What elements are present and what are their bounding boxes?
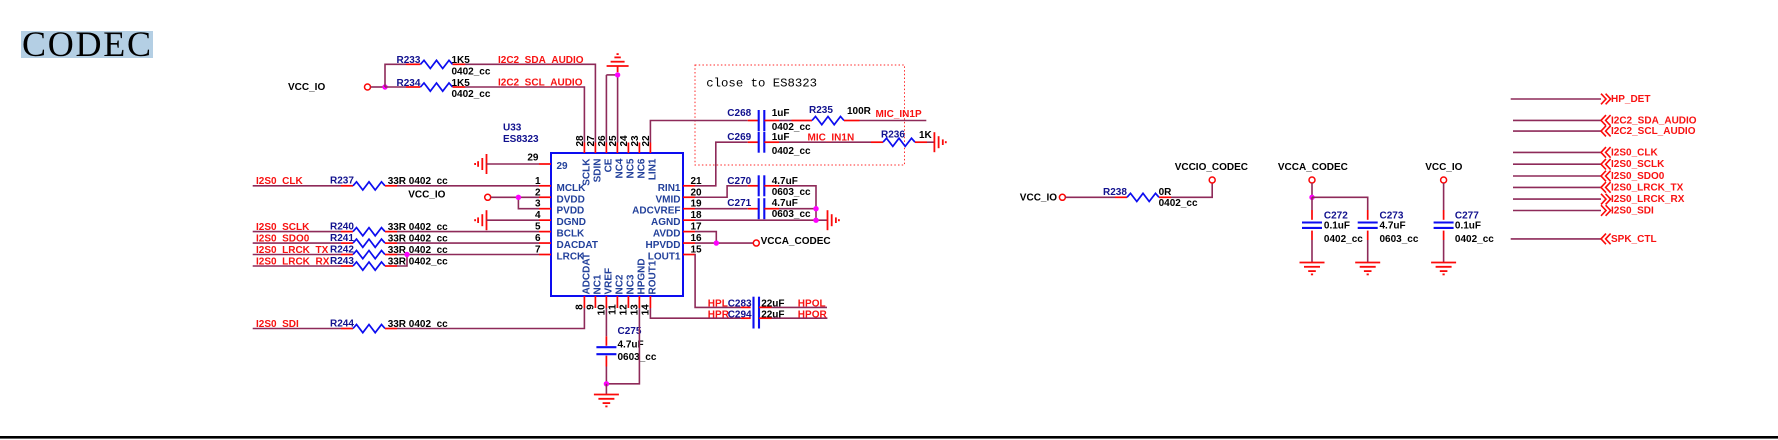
wire VCC_IO to junction xyxy=(371,86,386,88)
svg-text:MIC_IN1P: MIC_IN1P xyxy=(876,109,922,120)
svg-text:ROUT1: ROUT1 xyxy=(647,260,658,294)
svg-text:8: 8 xyxy=(574,304,585,310)
svg-text:NC4: NC4 xyxy=(614,158,625,178)
resistor R238 0R 0402_cc xyxy=(1065,187,1198,209)
net label I2S0_SDO0 xyxy=(253,233,341,244)
svg-text:3: 3 xyxy=(535,199,541,210)
svg-text:0402_cc: 0402_cc xyxy=(452,66,491,77)
svg-text:0402_cc: 0402_cc xyxy=(1455,234,1494,245)
svg-text:24: 24 xyxy=(619,135,630,147)
wire net HPOR xyxy=(759,317,827,319)
svg-text:VCC_IO: VCC_IO xyxy=(288,82,325,93)
pin 19 ADCVREF xyxy=(632,199,702,217)
pin 21 RIN1 xyxy=(658,176,702,194)
svg-text:0402_cc: 0402_cc xyxy=(1159,198,1198,209)
wire pin 14 ROUT1 to HPR row xyxy=(650,308,741,318)
svg-text:I2S0_LRCK_RX: I2S0_LRCK_RX xyxy=(1611,194,1685,205)
wire R237 to pin 1 xyxy=(397,185,539,187)
pin 25 NC4 xyxy=(608,135,626,179)
pin 14 ROUT1 xyxy=(640,260,658,315)
pin 23 NC6 xyxy=(630,135,648,179)
pin 10 VREF xyxy=(596,268,614,316)
capacitor C269 1uF 0402_cc xyxy=(727,132,811,157)
svg-text:I2S0_CLK: I2S0_CLK xyxy=(1611,147,1658,158)
off-page connector I2S0_LRCK_RX xyxy=(1513,194,1685,205)
svg-text:AGND: AGND xyxy=(651,217,680,228)
wire pin 16 HPVDD to VCCA_CODEC xyxy=(695,242,753,244)
off-page connector I2S0_LRCK_TX xyxy=(1513,182,1684,193)
svg-text:1: 1 xyxy=(535,176,541,187)
off-page connector I2C2_SCL_AUDIO xyxy=(1513,126,1696,137)
resistor R243 33R 0402_cc xyxy=(330,256,448,270)
svg-text:close to ES8323: close to ES8323 xyxy=(706,77,817,91)
svg-text:HP_DET: HP_DET xyxy=(1611,94,1650,105)
svg-text:1uF: 1uF xyxy=(772,108,790,119)
pin 6 DACDAT xyxy=(535,233,598,251)
svg-text:I2C2_SCL_AUDIO: I2C2_SCL_AUDIO xyxy=(1611,126,1696,137)
svg-text:NC6: NC6 xyxy=(636,158,647,178)
off-page connector I2S0_SDI xyxy=(1513,205,1654,216)
svg-text:LIN1: LIN1 xyxy=(647,158,658,180)
svg-text:11: 11 xyxy=(607,304,618,315)
svg-text:VCC_IO: VCC_IO xyxy=(408,190,445,201)
ground (C277) xyxy=(1431,263,1456,275)
svg-text:AVDD: AVDD xyxy=(653,229,681,240)
off-page connector SPK_CTL xyxy=(1511,234,1657,245)
svg-text:I2S0_SCLK: I2S0_SCLK xyxy=(1611,159,1665,170)
junction C275/HPGND ground node xyxy=(604,381,609,386)
wire pin 20 VMID up to C270 xyxy=(695,186,748,197)
svg-text:VCCA_CODEC: VCCA_CODEC xyxy=(1278,162,1348,173)
svg-text:0.1uF: 0.1uF xyxy=(1455,221,1481,232)
off-page connector I2S0_SDO0 xyxy=(1513,171,1665,182)
wire pin 13 HPGND down to ground junction xyxy=(606,308,639,384)
ground (pin 29 pad) xyxy=(475,154,486,174)
svg-text:0402_cc: 0402_cc xyxy=(772,146,811,157)
pin 29 stub xyxy=(527,153,568,173)
svg-text:MIC_IN1N: MIC_IN1N xyxy=(808,133,855,144)
pin 28 SCLK xyxy=(575,135,593,186)
title CODEC xyxy=(21,24,153,64)
wire C277 to ground xyxy=(1443,240,1445,263)
svg-text:4.7uF: 4.7uF xyxy=(1380,221,1406,232)
svg-text:0603_cc: 0603_cc xyxy=(772,187,811,198)
pin 1 MCLK xyxy=(535,176,586,194)
svg-text:33R 0402_cc: 33R 0402_cc xyxy=(388,256,448,267)
capacitor C275 4.7uF 0603_cc xyxy=(596,326,656,367)
svg-text:RIN1: RIN1 xyxy=(658,183,681,194)
pin 12 NC3 xyxy=(618,274,636,315)
ground (top, pins 25/26) xyxy=(607,54,629,72)
capacitor C277 0.1uF 0402_cc xyxy=(1434,183,1495,245)
capacitor C273 4.7uF 0603_cc xyxy=(1358,210,1419,245)
node VCC_IO (far right) xyxy=(1425,162,1462,183)
wire pin 15 LOUT1 to HPL row xyxy=(695,255,741,308)
svg-text:2: 2 xyxy=(535,187,541,198)
wire junction up to R233 row xyxy=(385,64,406,87)
svg-text:VREF: VREF xyxy=(603,268,614,295)
pin 3 PVDD xyxy=(535,199,584,217)
resistor R236 1K xyxy=(871,130,933,147)
node VCC_IO (right) xyxy=(1020,193,1066,204)
pin 16 HPVDD xyxy=(645,233,702,251)
capacitor C294 22uF xyxy=(728,310,752,321)
svg-text:4: 4 xyxy=(535,210,541,221)
net label I2S0_SCLK xyxy=(253,222,341,233)
wire C272 to ground xyxy=(1311,240,1313,263)
svg-text:7: 7 xyxy=(535,245,541,256)
junction LRCK_TX/RX xyxy=(404,252,409,257)
svg-text:NC5: NC5 xyxy=(625,158,636,178)
svg-text:6: 6 xyxy=(535,233,541,244)
svg-text:NC3: NC3 xyxy=(625,274,636,294)
svg-text:HPR: HPR xyxy=(708,310,730,321)
svg-text:0402_cc: 0402_cc xyxy=(452,89,491,100)
svg-text:ES8323: ES8323 xyxy=(503,134,539,145)
capacitor C268 1uF 0402_cc xyxy=(727,108,811,133)
wire C268 to R235 xyxy=(779,120,792,122)
resistor R237 33R 0402_cc xyxy=(330,176,448,191)
node VCCA_CODEC (right) xyxy=(1278,162,1348,183)
svg-text:I2C2_SCL_AUDIO: I2C2_SCL_AUDIO xyxy=(498,78,583,89)
node VCCA_CODEC (at chip) xyxy=(753,236,830,247)
svg-text:NC1: NC1 xyxy=(592,274,603,294)
wire pin 10 VREF down to C275 xyxy=(605,308,607,336)
wire net MIC_IN1P xyxy=(860,120,927,122)
wire VCC_IO to pins 2 and 3 xyxy=(491,196,539,198)
svg-text:NC2: NC2 xyxy=(614,274,625,294)
resistor R240 33R 0402_cc xyxy=(330,221,448,236)
svg-text:0603_cc: 0603_cc xyxy=(618,352,657,363)
svg-text:0.1uF: 0.1uF xyxy=(1324,221,1350,232)
svg-text:R236: R236 xyxy=(881,130,905,141)
junction top-ground node xyxy=(615,72,620,77)
resistor R234 1K5 0402_cc xyxy=(397,78,491,100)
wire R243 up to LRCK_TX row xyxy=(397,255,407,267)
resistor R233 1K5 0402_cc xyxy=(397,55,491,77)
off-page connector I2S0_SCLK xyxy=(1513,159,1665,170)
net label I2S0_LRCK_TX xyxy=(253,245,341,256)
wire VCCA_CODEC down to junction xyxy=(1311,183,1313,197)
svg-text:HPL: HPL xyxy=(708,298,728,309)
svg-text:23: 23 xyxy=(630,135,641,147)
svg-text:SDIN: SDIN xyxy=(592,159,603,183)
wire VCC_IO to R234 xyxy=(385,86,406,88)
net label I2S0_LRCK_RX xyxy=(253,256,341,267)
node VCC_IO (top-left) xyxy=(288,82,371,93)
svg-text:HPOR: HPOR xyxy=(798,310,828,321)
svg-text:CODEC: CODEC xyxy=(22,24,151,64)
wire R236 to ground xyxy=(927,141,934,143)
svg-text:HPGND: HPGND xyxy=(636,258,647,294)
pin 9 NC1 xyxy=(585,274,603,310)
wire C273 to ground xyxy=(1367,240,1369,263)
pin 27 SDIN xyxy=(586,135,604,182)
junction AVDD/HPVDD xyxy=(714,240,719,245)
capacitor C272 0.1uF 0402_cc xyxy=(1302,197,1363,245)
svg-text:R237: R237 xyxy=(330,176,354,187)
svg-text:HPOL: HPOL xyxy=(798,298,826,309)
resistor R244 33R 0402_cc xyxy=(330,318,448,332)
svg-text:27: 27 xyxy=(586,135,597,147)
wire net I2C2_SDA_AUDIO to pin 27 xyxy=(465,64,595,142)
svg-text:1uF: 1uF xyxy=(772,132,790,143)
pin 11 NC2 xyxy=(607,274,625,315)
pin 17 AVDD xyxy=(653,222,702,240)
svg-text:I2S0_LRCK_TX: I2S0_LRCK_TX xyxy=(1611,182,1684,193)
svg-text:12: 12 xyxy=(618,304,629,316)
svg-text:R241: R241 xyxy=(330,233,354,244)
node VCC_IO (left of chip) xyxy=(408,190,491,201)
svg-text:DACDAT: DACDAT xyxy=(557,240,598,251)
ground (C272) xyxy=(1300,263,1325,275)
svg-text:28: 28 xyxy=(575,135,586,147)
pin 13 HPGND xyxy=(629,258,647,315)
capacitor C271 4.7uF 0603_cc xyxy=(727,198,811,220)
svg-text:VCC_IO: VCC_IO xyxy=(1425,162,1462,173)
resistor R242 33R 0402_cc xyxy=(330,244,448,258)
svg-text:0603_cc: 0603_cc xyxy=(772,209,811,220)
svg-text:VCCA_CODEC: VCCA_CODEC xyxy=(761,236,831,247)
pin 18 AGND xyxy=(651,210,702,228)
svg-text:29: 29 xyxy=(527,153,539,164)
wire net I2C2_SCL_AUDIO to pin 28 xyxy=(465,87,584,143)
svg-text:I2S0_SDI: I2S0_SDI xyxy=(1611,206,1654,217)
off-page connector I2S0_CLK xyxy=(1513,147,1658,158)
svg-text:I2C2_SDA_AUDIO: I2C2_SDA_AUDIO xyxy=(498,55,584,66)
svg-text:I2C2_SDA_AUDIO: I2C2_SDA_AUDIO xyxy=(1611,115,1697,126)
wire ground to pins 26 and 25 xyxy=(606,74,617,76)
resistor R235 100R xyxy=(792,105,872,125)
junction VCC_IO pins 2/3 xyxy=(516,195,521,200)
wire pin 22 LIN1 to C268 xyxy=(650,121,747,143)
wire ground to pin 4 xyxy=(487,219,540,221)
svg-text:100R: 100R xyxy=(847,106,872,117)
pin 4 DGND xyxy=(535,210,586,228)
wire C275 to ground junction xyxy=(605,367,607,384)
pin 20 VMID xyxy=(656,187,703,205)
ground (AGND) xyxy=(828,210,839,230)
ground (below C275) xyxy=(594,384,619,407)
resistor R241 33R 0402_cc xyxy=(330,233,448,248)
wire ground to pin 29 xyxy=(487,163,540,165)
svg-text:VCC_IO: VCC_IO xyxy=(1020,193,1057,204)
pin 22 LIN1 xyxy=(641,135,659,180)
svg-text:1K: 1K xyxy=(919,130,933,141)
svg-text:R238: R238 xyxy=(1103,187,1127,198)
capacitor C270 4.7uF 0603_cc xyxy=(727,175,811,198)
wire R238 up to VCCIO_CODEC xyxy=(1171,183,1212,197)
ground (pin 4 DGND) xyxy=(475,210,486,230)
junction AGND node xyxy=(813,218,818,223)
wire R244 to pin 8 xyxy=(397,308,584,329)
ground (C273) xyxy=(1355,263,1380,275)
svg-text:DVDD: DVDD xyxy=(557,194,585,205)
svg-text:C268: C268 xyxy=(727,108,751,119)
svg-text:29: 29 xyxy=(557,161,569,172)
svg-text:CE: CE xyxy=(603,158,614,172)
svg-text:25: 25 xyxy=(608,135,619,147)
svg-text:HPVDD: HPVDD xyxy=(645,240,680,251)
svg-text:26: 26 xyxy=(597,135,608,147)
svg-text:DGND: DGND xyxy=(557,217,586,228)
wire R241 to pin 6 xyxy=(397,242,539,244)
net label I2S0_CLK xyxy=(253,176,341,187)
svg-text:C271: C271 xyxy=(727,198,751,209)
pin 2 DVDD xyxy=(535,187,585,205)
junction VCCA_CODEC split xyxy=(1309,195,1314,200)
svg-text:BCLK: BCLK xyxy=(557,229,586,240)
capacitor C283 22uF xyxy=(728,298,752,309)
net label I2S0_SDI xyxy=(253,319,341,330)
svg-text:0R: 0R xyxy=(1159,187,1173,198)
wire pin 17 AVDD down to pin 16 row xyxy=(695,232,716,243)
svg-text:0603_cc: 0603_cc xyxy=(1380,234,1419,245)
svg-text:9: 9 xyxy=(585,304,596,310)
svg-text:VCCIO_CODEC: VCCIO_CODEC xyxy=(1175,162,1248,173)
pin 24 NC5 xyxy=(619,135,637,179)
junction VCC_IO split xyxy=(382,84,387,89)
wire net MIC_IN1N to R236 xyxy=(779,141,871,143)
wire junction to C273 xyxy=(1312,197,1368,210)
svg-text:C275: C275 xyxy=(618,326,642,337)
wire pin 18 AGND to ground xyxy=(695,219,828,221)
pin 26 CE xyxy=(597,135,615,172)
svg-text:4.7uF: 4.7uF xyxy=(772,198,798,209)
wire R242 to pin 7 xyxy=(397,254,539,256)
wire R240 to pin 5 xyxy=(397,231,539,233)
capacitor plates C283/C294 xyxy=(754,297,760,329)
svg-text:U33: U33 xyxy=(503,123,522,134)
svg-text:PVDD: PVDD xyxy=(557,206,585,217)
svg-text:ADCDAT: ADCDAT xyxy=(581,253,592,294)
node VCCIO_CODEC xyxy=(1175,162,1248,183)
wire net HPOL xyxy=(759,306,827,308)
svg-text:15: 15 xyxy=(691,245,703,256)
off-page connector I2C2_SDA_AUDIO xyxy=(1513,115,1697,126)
wire pin 19 ADCVREF to C271 xyxy=(695,208,748,210)
off-page connector HP_DET xyxy=(1511,94,1651,105)
svg-text:VMID: VMID xyxy=(656,194,681,205)
junction C271 node xyxy=(813,206,818,211)
svg-text:SPK_CTL: SPK_CTL xyxy=(1611,234,1657,245)
svg-text:0402_cc: 0402_cc xyxy=(1324,234,1363,245)
wire C270 right down to AGND node xyxy=(779,186,816,220)
svg-text:SCLK: SCLK xyxy=(581,158,592,186)
wire pin 21 RIN1 up to C269 xyxy=(695,142,748,186)
dashed note box close to ES8323 xyxy=(695,65,905,165)
ground (right of R236) xyxy=(934,132,945,152)
pin 7 LRCK xyxy=(535,245,585,263)
pin 15 LOUT1 xyxy=(648,245,702,263)
pin 8 ADCDAT xyxy=(574,253,592,310)
svg-text:5: 5 xyxy=(535,222,541,233)
svg-text:I2S0_SDO0: I2S0_SDO0 xyxy=(1611,171,1665,182)
svg-text:R240: R240 xyxy=(330,221,354,232)
op-amp U33 ES8323 body xyxy=(503,123,683,297)
sheet border line (bottom) xyxy=(0,436,1778,439)
wire C271 right to vertical xyxy=(779,208,816,210)
svg-text:ADCVREF: ADCVREF xyxy=(632,206,680,217)
pin 5 BCLK xyxy=(535,222,585,240)
svg-text:R235: R235 xyxy=(809,105,833,116)
